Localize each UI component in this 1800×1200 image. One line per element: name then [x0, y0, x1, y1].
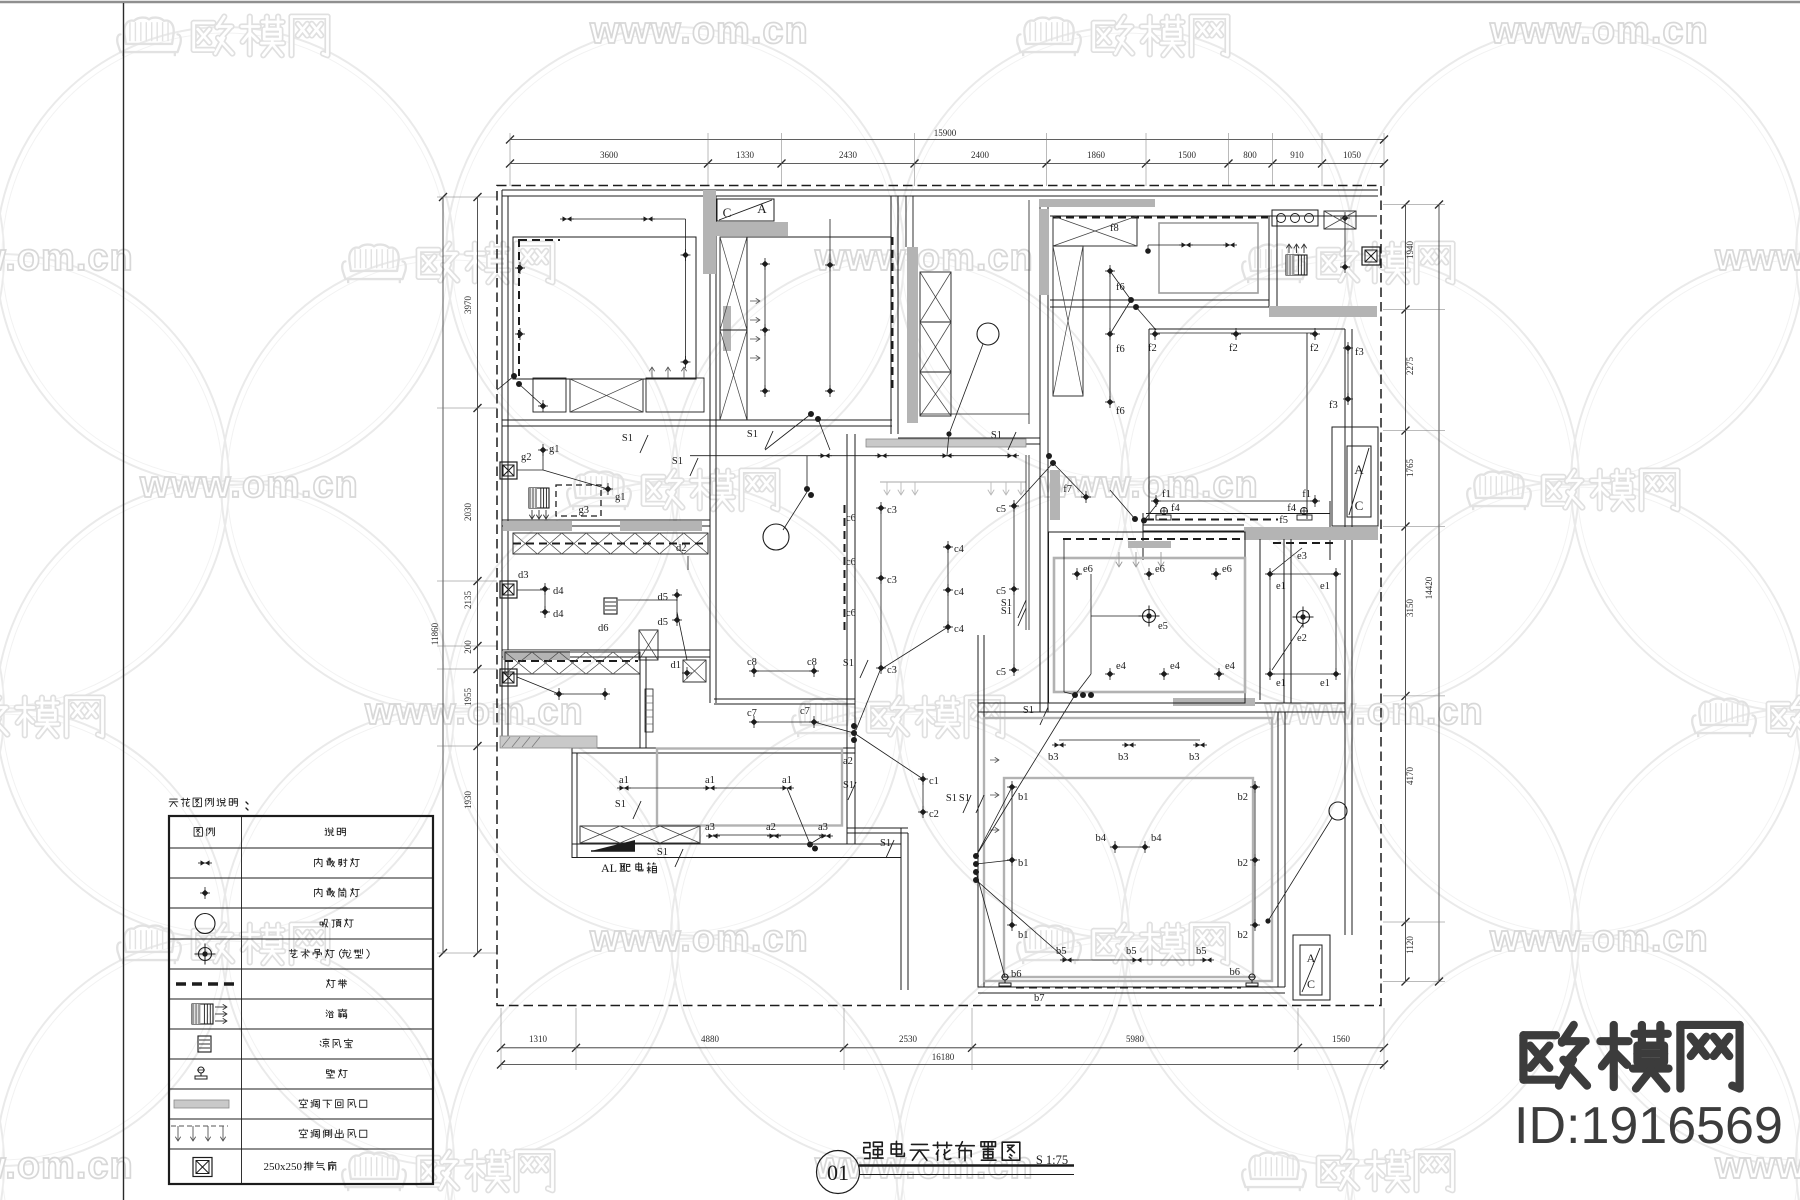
bed1 junction: [511, 373, 517, 379]
svg-text:a3: a3: [705, 822, 715, 833]
d5 downlights: [676, 595, 678, 620]
svg-text:b5: b5: [1126, 946, 1137, 957]
downlight bed1 low: [682, 359, 689, 366]
svg-text:www.om.cn: www.om.cn: [589, 10, 809, 52]
svg-text:c1: c1: [929, 776, 939, 787]
svg-text:b4: b4: [1151, 833, 1162, 844]
svg-text:f3: f3: [1329, 400, 1338, 411]
svg-text:www.om.cn: www.om.cn: [1489, 10, 1709, 52]
svg-text:4880: 4880: [701, 1034, 720, 1044]
svg-text:c5: c5: [996, 667, 1006, 678]
outer dashed unit boundary: [497, 186, 1381, 1006]
corridor closet row with bracing: [513, 533, 708, 554]
svg-text:15900: 15900: [934, 128, 957, 138]
svg-text:b2: b2: [1238, 930, 1249, 941]
svg-text:f1: f1: [1162, 489, 1171, 500]
svg-text:e1: e1: [1320, 581, 1330, 592]
legend row6 bath heater: [192, 1004, 213, 1024]
svg-text:b6: b6: [1230, 967, 1241, 978]
c4 downlight column: [947, 547, 949, 627]
svg-text:g3: g3: [579, 505, 590, 516]
svg-text:www.om.cn: www.om.cn: [139, 464, 359, 506]
sheet frame top edge: [0, 1, 1800, 4]
bed1 wire to lamp: [519, 384, 541, 404]
svg-text:www.om.cn: www.om.cn: [814, 237, 1034, 279]
c wires: [883, 627, 948, 668]
svg-text:1940: 1940: [1405, 241, 1415, 260]
svg-text:AL: AL: [601, 861, 617, 875]
bedroom2 center wire: [829, 219, 831, 391]
svg-text:c8: c8: [747, 657, 757, 668]
svg-text:4170: 4170: [1405, 767, 1415, 786]
kitchen ceiling rect: [1159, 223, 1258, 293]
f junctions: [1132, 516, 1138, 522]
top segment dimension line: [510, 163, 1384, 165]
svg-text:c6: c6: [846, 608, 856, 619]
svg-text:S1: S1: [843, 658, 854, 669]
svg-text:1560: 1560: [1332, 1034, 1351, 1044]
svg-text:910: 910: [1290, 150, 1304, 160]
section marker A/C bottom: [1293, 935, 1330, 1000]
left segment dimension line: [477, 197, 479, 953]
svg-text:S1: S1: [1023, 705, 1034, 716]
f6 junction wires: [1128, 297, 1134, 303]
svg-text:2030: 2030: [463, 503, 473, 522]
d6 cool-fan unit: [604, 598, 617, 614]
g bath heater: [529, 488, 549, 508]
laundry d: exhaust fan d3: [500, 581, 517, 598]
svg-text:c5: c5: [996, 586, 1006, 597]
svg-text:www.om.cn: www.om.cn: [0, 1145, 134, 1187]
svg-text:c7: c7: [800, 706, 810, 717]
right segment dimension line: [1405, 205, 1407, 982]
right dim extension lines: [1383, 204, 1445, 206]
left dim extension lines: [437, 196, 497, 198]
svg-text:g2: g2: [521, 452, 532, 463]
svg-text:S1: S1: [1001, 598, 1012, 609]
legend row7 cool fan: [198, 1036, 211, 1052]
g3 dashed cove: [556, 485, 601, 516]
legend row9 AC return: [174, 1100, 229, 1108]
svg-text:f6: f6: [1116, 406, 1125, 417]
e room junctions: [1072, 692, 1078, 698]
lower bath exhaust fan: [500, 669, 517, 686]
legend row4 art pendant: [199, 948, 212, 961]
b5 spotlight row: [1067, 959, 1207, 961]
g1 downlight: [542, 452, 544, 470]
svg-text:S1: S1: [959, 793, 970, 804]
svg-text:f7: f7: [1063, 484, 1072, 495]
svg-text:b3: b3: [1189, 752, 1200, 763]
svg-text:S1: S1: [991, 430, 1002, 441]
svg-text:www.om.cn: www.om.cn: [364, 691, 584, 733]
dining corridor walls: [1025, 455, 1027, 630]
vent grille strip: [645, 689, 653, 732]
wall fills (concrete): [703, 190, 716, 274]
b1 downlight column: [1011, 787, 1013, 925]
bedroom 2 side vent arrows: [750, 300, 760, 302]
f cove dashed: [1146, 519, 1278, 521]
svg-text:1500: 1500: [1178, 150, 1197, 160]
legend row11 exhaust fan: [193, 1158, 212, 1177]
f6 downlight column: [1109, 271, 1111, 402]
svg-text:2430: 2430: [839, 150, 858, 160]
svg-text:c6: c6: [846, 557, 856, 568]
svg-text:d5: d5: [658, 617, 669, 628]
right overall dimension line 14420: [1438, 205, 1440, 982]
legend row10 AC side outlet: [171, 1125, 228, 1127]
c5 downlight column: [1013, 506, 1015, 670]
svg-text:C: C: [723, 205, 732, 220]
kitchen exhaust fan 250x250: [1362, 247, 1380, 265]
svg-text:1310: 1310: [529, 1034, 548, 1044]
svg-text:ID:1916569: ID:1916569: [1514, 1097, 1783, 1155]
svg-text:b1: b1: [1018, 858, 1029, 869]
svg-text:f4: f4: [1287, 503, 1296, 514]
corridor junctions: [1046, 453, 1052, 459]
svg-text:e4: e4: [1116, 661, 1127, 672]
svg-text:1860: 1860: [1087, 150, 1106, 160]
master e room rects: [1049, 532, 1246, 703]
legend header: [194, 828, 202, 837]
legend row8 wall lamp: [198, 1067, 204, 1073]
d wires: [517, 589, 545, 591]
guest bath g: exhaust fan g2: [500, 462, 517, 479]
svg-text:a1: a1: [782, 775, 792, 786]
d1 downlight: [677, 612, 687, 660]
svg-text:16180: 16180: [932, 1052, 955, 1062]
svg-text:f2: f2: [1310, 343, 1319, 354]
svg-text:e2: e2: [1297, 633, 1307, 644]
svg-text:2275: 2275: [1405, 357, 1415, 376]
c6 cove dashed with labels: [844, 505, 846, 630]
bedroom 1 light cove dashed: [518, 239, 520, 376]
bedroom 2 ceiling rect: [747, 237, 891, 420]
dining c zone: c8 downlights: [754, 670, 814, 672]
c3 downlight column: [880, 508, 882, 668]
top overall dimension line 15900: [510, 139, 1384, 141]
living room right edge line: [1306, 333, 1308, 519]
svg-text:www.om.cn: www.om.cn: [1714, 237, 1800, 279]
corridor cove dashed: [513, 543, 708, 545]
legend row2 downlight: [202, 890, 209, 897]
svg-text:f8: f8: [1110, 223, 1119, 234]
corridor spotlights: [821, 453, 830, 458]
svg-text:g1: g1: [615, 492, 626, 503]
svg-text:11860: 11860: [430, 622, 440, 645]
svg-text:3150: 3150: [1405, 599, 1415, 618]
hallway duct boxes: [639, 630, 658, 660]
c1 c2 downlights: [922, 779, 924, 812]
b room side vent arrows: [990, 759, 999, 761]
svg-text:f3: f3: [1355, 347, 1364, 358]
kitchen cove dashed: [1053, 217, 1268, 219]
A/C return grille bars: [500, 736, 597, 748]
kitchen hatch box: [1324, 211, 1356, 229]
svg-text:1765: 1765: [1405, 459, 1415, 478]
svg-text:c4: c4: [954, 544, 965, 555]
e2 art pendant: [1297, 611, 1310, 624]
svg-text:f6: f6: [1116, 282, 1125, 293]
balcony door lines top: [905, 196, 907, 247]
svg-text:www.om.cn: www.om.cn: [1489, 918, 1709, 960]
svg-text:g1: g1: [549, 444, 560, 455]
svg-text:250x250: 250x250: [264, 1161, 303, 1173]
kitchen sink: [1272, 210, 1318, 226]
kitchen bath-heater: [1286, 255, 1307, 275]
spotlight (bed1 b): [644, 216, 653, 221]
svg-text:2530: 2530: [899, 1034, 918, 1044]
svg-text:1955: 1955: [463, 688, 473, 707]
spotlights bedroom1 wire: [567, 218, 648, 220]
svg-text:14420: 14420: [1424, 576, 1434, 599]
svg-text:a3: a3: [818, 822, 828, 833]
bottom segment dimension line: [501, 1047, 1384, 1049]
svg-text:a1: a1: [619, 775, 629, 786]
svg-text:S1: S1: [615, 799, 626, 810]
svg-text:f2: f2: [1229, 343, 1238, 354]
living room ceiling rect: [657, 749, 842, 826]
a2/a3 row: [713, 834, 826, 836]
big watermark logo 欧模网: [1523, 1025, 1587, 1086]
svg-text:b4: b4: [1096, 833, 1107, 844]
wire c5 to f area: [1014, 463, 1053, 506]
svg-text:b6: b6: [1011, 969, 1022, 980]
svg-text:e6: e6: [1155, 564, 1165, 575]
bedroom 1 ceiling rect: [513, 237, 696, 379]
legend table frame: [169, 816, 433, 1184]
svg-text:d6: d6: [598, 623, 609, 634]
c7 downlights: [754, 721, 814, 723]
section marker A/C right: [1332, 427, 1378, 526]
svg-text:A: A: [1307, 951, 1316, 965]
svg-text:b3: b3: [1048, 752, 1059, 763]
svg-text:e1: e1: [1320, 678, 1330, 689]
downlight bed1: [682, 252, 689, 259]
e room cove dashed: [1063, 538, 1240, 540]
svg-text:b2: b2: [1238, 858, 1249, 869]
legend title 天花图例说明: [169, 799, 178, 807]
title circle 01: [817, 1151, 860, 1194]
svg-text:b1: b1: [1018, 792, 1029, 803]
b junction cluster: [973, 853, 979, 859]
svg-text:d4: d4: [553, 586, 564, 597]
wire to ceiling lamp top: [949, 344, 983, 434]
wire f to e3: [1272, 548, 1302, 572]
svg-text:f2: f2: [1148, 343, 1157, 354]
svg-text:www.om.cn: www.om.cn: [0, 237, 134, 279]
sheet frame left border: [123, 3, 125, 1200]
spotlight (bed1 a): [563, 216, 572, 221]
svg-text:e4: e4: [1170, 661, 1181, 672]
svg-text:c8: c8: [807, 657, 817, 668]
bottom dim extension lines: [500, 1008, 502, 1070]
svg-text:d3: d3: [518, 570, 529, 581]
svg-text:200: 200: [463, 640, 473, 654]
svg-text:01: 01: [827, 1160, 849, 1185]
b3 spotlight row: [1059, 739, 1200, 741]
exterior and interior walls: [502, 189, 1378, 191]
bottom overall dimension line 16180: [501, 1064, 1384, 1066]
legend row1 spotlight: [201, 860, 210, 865]
kitchen right wire: [1344, 215, 1346, 267]
svg-text:c7: c7: [747, 708, 757, 719]
lower bath downlights: [517, 677, 559, 694]
svg-text:S1: S1: [622, 433, 633, 444]
svg-text:c5: c5: [996, 504, 1006, 515]
svg-text:d1: d1: [671, 660, 682, 671]
svg-text:b7: b7: [1034, 993, 1045, 1004]
svg-text:c6: c6: [846, 513, 856, 524]
lower bath cove dashed: [505, 660, 638, 662]
svg-text:1050: 1050: [1343, 150, 1362, 160]
svg-text:c4: c4: [954, 624, 965, 635]
e5 art pendant: [1143, 610, 1156, 623]
a wires to junction: [787, 788, 810, 844]
e4 downlight row: [1107, 671, 1114, 678]
svg-text:800: 800: [1243, 150, 1257, 160]
svg-text:1930: 1930: [463, 791, 473, 810]
svg-text:b2: b2: [1238, 792, 1249, 803]
e6 downlight row: [1074, 571, 1081, 578]
svg-text:b5: b5: [1196, 946, 1207, 957]
svg-text:b1: b1: [1018, 930, 1029, 941]
f7 wire and light: [1053, 463, 1086, 497]
c junction cluster: [851, 723, 857, 729]
b wires: [976, 695, 1075, 856]
svg-text:c3: c3: [887, 575, 897, 586]
AL distribution box: [591, 840, 635, 851]
wardrobe column with cross bracing: [720, 237, 747, 330]
svg-text:2135: 2135: [463, 591, 473, 610]
svg-text:d2: d2: [676, 543, 687, 554]
bedroom 1 closet boxes: [533, 378, 566, 412]
svg-text:S1: S1: [672, 456, 683, 467]
svg-text:f4: f4: [1171, 503, 1180, 514]
svg-text:e5: e5: [1158, 621, 1168, 632]
svg-text:C: C: [1307, 977, 1315, 991]
services wall column: [920, 272, 951, 322]
svg-text:e6: e6: [1083, 564, 1093, 575]
top dim extension lines: [509, 133, 511, 186]
title text 强电天花布置图: [864, 1142, 883, 1158]
d4 downlights: [544, 589, 546, 612]
kitchen closet boxes: [1053, 216, 1137, 246]
svg-text:f6: f6: [1116, 344, 1125, 355]
svg-text:f5: f5: [1279, 515, 1288, 526]
bedroom2 downlight column: [764, 264, 766, 391]
b6 wall lamps: [1002, 974, 1008, 980]
downlight bed1 cove: [517, 265, 524, 272]
svg-text:f1: f1: [1302, 489, 1311, 500]
ceiling lamp bottom right wire: [1329, 802, 1347, 820]
svg-text:5980: 5980: [1126, 1034, 1145, 1044]
b4 downlights: [1115, 846, 1145, 848]
living room lower closet row: [580, 826, 700, 843]
f1/f4 wall-washer row: [1156, 500, 1315, 502]
e wires: [1090, 574, 1092, 674]
living a room lights: [624, 787, 787, 789]
left overall dimension line 11860: [442, 197, 444, 953]
svg-text:c2: c2: [929, 809, 939, 820]
f2 downlight row: [1155, 332, 1315, 334]
b2 downlight column: [1254, 787, 1256, 925]
svg-text:e3: e3: [1297, 551, 1307, 562]
svg-text:e4: e4: [1225, 661, 1236, 672]
bedroom 1 vent arrows: [651, 367, 653, 378]
svg-text:b3: b3: [1118, 752, 1129, 763]
f3 downlights: [1347, 348, 1349, 399]
bedroom2 junctions: [808, 411, 814, 417]
svg-text:S1: S1: [747, 429, 758, 440]
b cove dashed: [1016, 987, 1241, 989]
svg-text:S1: S1: [880, 838, 891, 849]
balcony e1 lights: [1270, 573, 1336, 575]
svg-text:a1: a1: [705, 775, 715, 786]
svg-text:www.om.cn: www.om.cn: [589, 918, 809, 960]
bedroom 2 cove dashed: [892, 237, 894, 393]
svg-text:c3: c3: [887, 505, 897, 516]
svg-text:2400: 2400: [971, 150, 990, 160]
corridor side vent strip: [880, 481, 1026, 483]
legend row3 ceiling lamp: [195, 914, 215, 934]
entry section marker C/A: [717, 199, 774, 221]
dining ceiling lamp: [763, 524, 789, 550]
ceiling lamp hall: [977, 323, 999, 345]
lower bath closet row: [505, 652, 640, 674]
svg-text:a2: a2: [766, 822, 776, 833]
svg-text:A: A: [757, 201, 767, 216]
e room left wire: [1063, 540, 1065, 692]
svg-text:c3: c3: [887, 665, 897, 676]
svg-text:d5: d5: [658, 592, 669, 603]
svg-text:A: A: [1354, 462, 1364, 477]
svg-text:S1: S1: [946, 793, 957, 804]
svg-text:3970: 3970: [463, 296, 473, 315]
title underlines: [859, 1164, 1074, 1166]
g wires: [517, 469, 543, 471]
balcony partition walls: [1259, 539, 1261, 700]
svg-text:c4: c4: [954, 587, 965, 598]
bedroom b outer rects: [978, 712, 1278, 987]
legend row5 light cove: [176, 982, 234, 986]
svg-text:S1: S1: [657, 847, 668, 858]
svg-text:1120: 1120: [1405, 936, 1415, 954]
svg-text:e6: e6: [1222, 564, 1232, 575]
svg-text:1330: 1330: [736, 150, 755, 160]
kitchen downlights: [1147, 245, 1149, 251]
svg-text:d4: d4: [553, 609, 564, 620]
corridor long wire: [690, 455, 1011, 457]
svg-text:a2: a2: [843, 756, 853, 767]
svg-text:C: C: [1355, 498, 1364, 513]
svg-text:3600: 3600: [600, 150, 619, 160]
e room down arrows: [1118, 552, 1120, 566]
